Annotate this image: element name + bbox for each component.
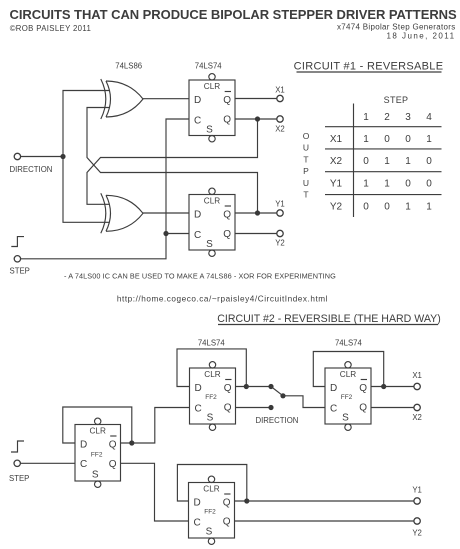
wire step junction to U2b C [166,233,189,235]
svg-text:1: 1 [363,134,369,145]
svg-text:0: 0 [363,202,369,213]
svg-text:Y2: Y2 [412,529,422,538]
svg-text:U: U [303,178,309,188]
svg-text:STEP: STEP [384,95,409,105]
svg-text:CLR: CLR [203,485,219,494]
wire U2a Q1 to X1 [235,98,277,100]
svg-text:0: 0 [426,179,432,190]
flip-flop U2a (74LS74 top) [189,74,235,142]
svg-text:1: 1 [405,156,411,167]
svg-text:C: C [195,404,202,415]
terminal X2 (circuit 2) [414,404,420,410]
svg-text:CLR: CLR [204,197,220,206]
wire U5 Q to X2 [371,407,414,409]
flip-flop U6 (FF2 bottom) [189,476,235,544]
terminal Y1 [277,210,283,216]
svg-text:C: C [194,230,201,241]
step pulse symbol (circuit 2) [11,441,24,452]
wire step to U3 C [21,462,76,464]
svg-text:Q: Q [359,383,367,394]
svg-text:FF2: FF2 [205,394,217,401]
svg-text:3: 3 [405,112,411,123]
svg-text:S: S [206,527,213,538]
svg-text:X1: X1 [412,371,422,380]
svg-text:O: O [303,131,310,141]
wire U3 Q to U6 C [121,463,189,521]
svg-text:Q: Q [223,115,231,126]
terminal STEP (circuit 2) [14,460,20,466]
svg-text:Y1: Y1 [330,179,343,190]
wire step to clock inputs [21,119,189,259]
node U4 Q1 junction [244,384,249,389]
wire direction to xor U1b bottom input [63,157,109,223]
svg-text:©ROB PAISLEY 2011: ©ROB PAISLEY 2011 [10,24,91,33]
xor gate U1b [101,193,143,233]
svg-text:S: S [92,470,99,481]
wire U6 Q1 to Y1 [247,500,414,502]
svg-text:1: 1 [426,134,432,145]
terminal X2 [277,116,283,122]
svg-text:1: 1 [405,202,411,213]
svg-text:1: 1 [384,156,390,167]
svg-text:CIRCUIT #1 - REVERSABLE: CIRCUIT #1 - REVERSABLE [294,61,444,73]
svg-text:D: D [330,383,337,394]
wire direction input [21,156,63,158]
wire U2b Q1 to Y1 [235,212,277,214]
svg-text:S: S [206,239,213,250]
svg-text:FF2: FF2 [204,509,216,516]
svg-text:Q: Q [223,517,231,528]
svg-text:S: S [207,413,214,424]
svg-text:Y1: Y1 [412,486,422,495]
wire U4 feedback loop Q1 to D [177,349,246,387]
wire U6 Q to Y2 [235,520,414,522]
svg-text:1: 1 [426,202,432,213]
terminal Y2 [277,230,283,236]
truth table [303,95,442,217]
svg-text:0: 0 [405,179,411,190]
svg-text:74LS74: 74LS74 [335,339,363,348]
svg-text:T: T [303,190,308,200]
svg-text:18 June, 2011: 18 June, 2011 [387,32,456,41]
wire switch common to U5 C [283,396,325,408]
wire U5 Q1 to X1 [384,386,414,388]
svg-text:Y2: Y2 [330,202,343,213]
svg-text:CIRCUIT #2 - REVERSIBLE (THE H: CIRCUIT #2 - REVERSIBLE (THE HARD WAY) [217,313,440,325]
svg-text:CLR: CLR [204,82,220,91]
wire U5 feedback loop Q1 to D [313,352,383,387]
node U6 Q1 junction [244,498,249,503]
flip-flop U3 (FF2 left) [75,418,121,487]
svg-text:Q: Q [224,403,232,414]
flip-flop U2b (74LS74 bottom) [189,188,235,256]
svg-text:S: S [206,125,213,136]
svg-text:4: 4 [426,112,432,123]
svg-text:CIRCUITS THAT CAN PRODUCE BIPO: CIRCUITS THAT CAN PRODUCE BIPOLAR STEPPE… [10,7,457,22]
step pulse symbol (circuit 1) [11,237,24,247]
svg-text:C: C [194,116,201,127]
node direction junction [60,154,65,159]
svg-text:DIRECTION: DIRECTION [10,165,53,174]
svg-text:Q: Q [223,229,231,240]
node U3 Q1 junction [129,440,134,445]
svg-text:D: D [80,440,87,451]
svg-text:Q: Q [109,459,117,470]
wire X2 feedback to xor U1b upper input [87,119,258,204]
svg-text:C: C [194,518,201,529]
wire U3 Q1 to U4 C [132,408,190,444]
node Y1 junction [255,210,260,215]
svg-text:FF2: FF2 [341,394,353,401]
svg-text:U: U [303,143,309,153]
svg-text:74LS74: 74LS74 [195,62,223,71]
svg-text:2: 2 [384,112,390,123]
svg-text:1: 1 [363,112,369,123]
svg-text:X2: X2 [275,125,285,134]
svg-text:DIRECTION: DIRECTION [256,416,299,425]
node X2 junction [255,116,260,121]
wire U4 Q to switch bottom contact [236,407,272,409]
flip-flop U5 (FF2 right) [325,362,371,431]
svg-text:0: 0 [363,156,369,167]
svg-text:S: S [342,413,349,424]
svg-text:Q: Q [109,440,117,451]
terminal DIRECTION [14,153,20,159]
svg-text:CLR: CLR [90,427,106,436]
svg-text:D: D [195,383,202,394]
wire U6 feedback loop Q1 to D [177,465,246,502]
svg-text:STEP: STEP [9,474,29,483]
svg-text:X1: X1 [275,86,285,95]
wire U2b Q to Y2 [235,233,277,235]
svg-text:Q: Q [223,498,231,509]
svg-text:X2: X2 [412,413,422,422]
svg-text:Q: Q [223,95,231,106]
svg-text:P: P [303,166,309,176]
svg-text:D: D [194,498,201,509]
svg-text:CLR: CLR [204,370,220,379]
terminal STEP (circuit 1) [14,256,20,262]
svg-text:1: 1 [363,179,369,190]
svg-text:74LS86: 74LS86 [115,62,142,71]
svg-text:X2: X2 [330,156,343,167]
svg-text:x7474 Bipolar Step Generators: x7474 Bipolar Step Generators [337,23,456,32]
svg-text:D: D [194,95,201,106]
terminal Y2 (circuit 2) [414,518,420,524]
svg-text:Q: Q [224,383,232,394]
svg-text:Y1: Y1 [275,200,285,209]
wire Y1 feedback to xor U1a lower input [87,108,258,214]
svg-text:C: C [330,404,337,415]
svg-text:1: 1 [384,179,390,190]
terminal X1 (circuit 2) [414,383,420,389]
terminal Y1 (circuit 2) [414,498,420,504]
node step junction [163,231,168,236]
node U5 Q1 junction [381,384,386,389]
svg-text:0: 0 [384,202,390,213]
svg-text:0: 0 [405,134,411,145]
svg-text:0: 0 [384,134,390,145]
wire U2a Q to X2 [235,118,277,120]
wire xor U1a output to U2a D [143,98,189,100]
terminal X1 [277,95,283,101]
svg-text:STEP: STEP [10,267,30,276]
flip-flop U4 (FF2 middle top) [190,362,236,431]
svg-text:Y2: Y2 [275,239,285,248]
svg-text:CLR: CLR [340,370,356,379]
svg-text:Q: Q [223,210,231,221]
wire U4 Q1 to switch top contact [246,386,271,388]
wire U3 feedback loop Q1 to D [63,407,132,443]
svg-text:0: 0 [426,156,432,167]
svg-text:C: C [80,459,87,470]
svg-text:X1: X1 [330,134,343,145]
svg-text:D: D [194,210,201,221]
svg-text:T: T [303,154,308,164]
svg-text:- A 74LS00 IC CAN BE USED TO M: - A 74LS00 IC CAN BE USED TO MAKE A 74LS… [64,272,336,281]
svg-text:http://home.cogeco.ca/~rpaisle: http://home.cogeco.ca/~rpaisley4/Circuit… [117,295,328,304]
wire xor U1b output to U2b D [143,212,189,214]
switch DIRECTION [268,384,285,410]
svg-text:FF2: FF2 [91,452,103,459]
svg-text:Q: Q [359,403,367,414]
wire direction to xor U1a top input [63,91,109,157]
xor gate U1a [101,79,143,119]
svg-text:74LS74: 74LS74 [198,339,226,348]
